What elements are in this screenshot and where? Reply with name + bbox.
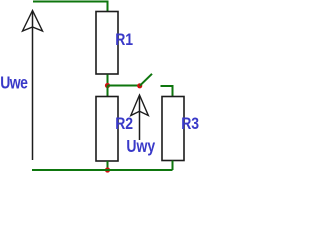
- resistor R3: [162, 97, 184, 161]
- svg-text:R3: R3: [181, 115, 199, 133]
- junction node B: [105, 167, 110, 172]
- voltage arrow Uwy head: [131, 95, 149, 116]
- wire junction A to switch pole: [108, 85, 140, 87]
- svg-text:Uwy: Uwy: [126, 137, 155, 156]
- switch S blade (open): [140, 74, 152, 86]
- wire top rail from source to R1: [33, 2, 108, 13]
- voltage arrow Uwe head: [23, 11, 43, 32]
- wire R3 bottom to ground rail: [172, 161, 174, 171]
- resistor R2: [96, 97, 118, 162]
- wire R1 bottom to junction: [107, 75, 109, 89]
- junction node A: [105, 83, 110, 88]
- svg-text:R1: R1: [115, 31, 133, 49]
- junction switch pole: [137, 83, 142, 88]
- wire R2 bottom to ground rail: [107, 161, 109, 170]
- svg-text:Uwe: Uwe: [0, 73, 28, 93]
- voltage arrow Uwe shaft: [32, 12, 34, 161]
- wire junction A to R2 top: [107, 86, 109, 97]
- voltage arrow Uwy shaft: [139, 96, 141, 140]
- svg-text:R2: R2: [115, 115, 133, 133]
- resistor R1: [96, 12, 118, 75]
- wire bottom rail: [32, 169, 173, 171]
- wire switch contact to R3 top: [161, 86, 173, 97]
